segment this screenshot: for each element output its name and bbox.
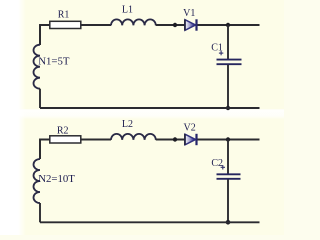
svg-text:L1: L1: [122, 5, 133, 16]
wire: resistor to inductor: [81, 24, 111, 26]
junction dot (cap bottom node): [226, 220, 231, 225]
left winding N2 lower lead: [39, 203, 41, 222]
inductor L2: [111, 134, 156, 140]
left winding N1 upper lead: [39, 25, 41, 45]
junction dot (cap top node): [226, 137, 230, 141]
wire: cap branch upper: [227, 140, 229, 175]
junction dot (cap top node): [226, 23, 230, 27]
junction dot (anode node): [173, 137, 177, 141]
wire: cap branch lower: [227, 65, 229, 108]
plus sign C1: [219, 51, 223, 55]
svg-text:R1: R1: [58, 10, 70, 21]
svg-text:N2=10T: N2=10T: [38, 173, 75, 185]
wire: top-left corner to resistor: [40, 140, 50, 160]
winding N1: [34, 45, 41, 89]
wire: diode to right end: [198, 139, 260, 141]
left winding N2 upper lead: [39, 140, 41, 160]
wire: cap branch lower: [227, 179, 229, 222]
wire: cap branch upper: [227, 25, 229, 59]
junction dot (cap bottom node): [226, 106, 230, 110]
svg-text:R2: R2: [57, 125, 69, 136]
winding N2: [34, 159, 41, 203]
white left margin: [0, 0, 26, 235]
svg-text:V2: V2: [183, 123, 195, 134]
white band between circuits: [0, 109, 284, 119]
junction dot (anode node): [173, 23, 177, 27]
diode V2: [185, 134, 197, 145]
left winding N1 lower lead: [39, 89, 41, 108]
wire: diode to right end: [198, 24, 260, 26]
resistor R1: [50, 21, 81, 28]
bottom wire: [40, 107, 260, 109]
resistor R2: [50, 136, 81, 143]
capacitor C1: [217, 60, 242, 65]
wire: inductor to diode: [156, 139, 185, 141]
svg-text:N1=5T: N1=5T: [38, 55, 70, 67]
bottom wire: [40, 221, 260, 223]
svg-text:L2: L2: [122, 119, 133, 130]
wire: inductor to diode: [156, 24, 185, 26]
svg-text:V1: V1: [183, 8, 195, 19]
wire: top-left corner to resistor: [40, 25, 50, 45]
wire: resistor to inductor: [81, 139, 111, 141]
diode V1: [185, 19, 197, 30]
plus sign C2: [221, 165, 225, 169]
capacitor C2: [217, 174, 241, 179]
inductor L1: [111, 19, 156, 25]
